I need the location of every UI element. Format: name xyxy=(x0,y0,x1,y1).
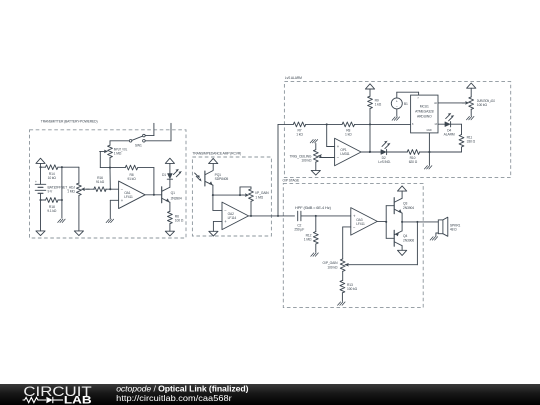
svg-text:2N3904: 2N3904 xyxy=(403,206,414,210)
transistor Q1 2N3904 xyxy=(162,187,182,203)
power VCC receiver xyxy=(209,158,218,170)
svg-text:HPF (f3dB = 6E-4 Hz): HPF (f3dB = 6E-4 Hz) xyxy=(295,206,331,210)
potentiometer I/P_GAIN 1 M xyxy=(242,189,269,201)
annotation box LvS ALARM xyxy=(284,76,510,178)
svg-text:620 Ω: 620 Ω xyxy=(409,160,418,164)
signal ground B1 xyxy=(392,117,400,120)
op-amp OA1 LF411 xyxy=(119,181,146,209)
svg-text:1 MΩ: 1 MΩ xyxy=(255,195,263,199)
resistor R9 1 k pullup xyxy=(368,96,382,108)
battery BAT1 9 V xyxy=(35,180,55,194)
resistor R11 330 xyxy=(459,135,476,147)
svg-text:1 MΩ: 1 MΩ xyxy=(304,238,312,242)
wire TRIG bottom xyxy=(315,162,317,170)
resistor R8 1 k hysteresis xyxy=(342,122,354,136)
wire node to OA2 inverting xyxy=(213,195,222,210)
annotation box O/P STAGE xyxy=(283,178,424,307)
ground TRIG_CEILING xyxy=(311,170,320,175)
MCU MCU1 ATMEGA328 ARDUINO xyxy=(411,95,438,133)
potentiometer INPUT_VOL 1 M xyxy=(100,145,128,157)
signal ground TRIG_CEILING top xyxy=(310,140,318,143)
wire SW1 lower throw stub xyxy=(145,123,171,141)
wire R14 left xyxy=(39,166,45,168)
svg-text:330 Ω: 330 Ω xyxy=(467,140,476,144)
svg-text:LvS ALARM: LvS ALARM xyxy=(285,76,302,80)
wire OA2 output xyxy=(249,215,280,217)
wire output feedback down xyxy=(416,222,418,265)
wire battery minus to R18 xyxy=(40,193,42,200)
svg-text:O/P STAGE: O/P STAGE xyxy=(283,178,301,182)
potentiometer O/P_GAIN 100 k xyxy=(323,259,349,271)
svg-text:−: − xyxy=(396,105,398,109)
wire DURATION_ADJ bottom xyxy=(470,109,472,115)
transistor Q4 2N3906 xyxy=(394,230,414,246)
wire Q4 base xyxy=(386,237,394,239)
svg-text:O/P_GAIN: O/P_GAIN xyxy=(323,261,339,265)
power VCC R9 xyxy=(365,84,374,96)
comparator OP1 LM311 xyxy=(335,138,362,166)
wire INPUT_VOL wiper return xyxy=(100,151,110,167)
svg-text:1 kΩ: 1 kΩ xyxy=(345,132,352,136)
signal ground mid-rail xyxy=(58,219,65,222)
svg-text:48 Ω: 48 Ω xyxy=(450,228,457,232)
switch SW1 xyxy=(129,134,145,147)
svg-text:MCU1: MCU1 xyxy=(420,105,429,109)
LED D2 LvS IND xyxy=(378,141,391,164)
wire R7 right to node A xyxy=(306,123,342,125)
power VCC D1 xyxy=(165,158,174,173)
svg-text:B1: B1 xyxy=(404,102,408,106)
svg-text:9.1 kΩ: 9.1 kΩ xyxy=(47,209,57,213)
op-amp OA3 LF411 xyxy=(351,208,378,236)
wire R18 right / mid-rail vertical xyxy=(58,167,63,218)
power VEE Q4 xyxy=(398,250,407,255)
wire battery minus down xyxy=(40,200,42,231)
signal ground MCU xyxy=(424,166,432,169)
signal ground DURATION_ADJ xyxy=(467,116,475,119)
wire R8 right to MCU pin 8 xyxy=(355,123,411,125)
svg-text:+: + xyxy=(35,180,37,184)
wire C2 to OA3 + input xyxy=(301,215,351,217)
svg-text:LAB: LAB xyxy=(64,395,92,405)
svg-text:10 kΩ: 10 kΩ xyxy=(48,176,57,180)
svg-text:Q4: Q4 xyxy=(403,234,407,238)
wire OP1 output to D2 xyxy=(361,151,381,153)
phototransistor PQ1 SDP8405 xyxy=(195,171,229,186)
signal ground R12 xyxy=(311,253,319,256)
wire R9 down to comparator output xyxy=(369,109,371,153)
resistor R14 10 k xyxy=(46,165,58,180)
wire B1 to MCU top pin xyxy=(397,92,419,98)
svg-text:250 µF: 250 µF xyxy=(294,228,304,232)
capacitor C2 250uF HPF xyxy=(294,206,330,232)
svg-text:Q1: Q1 xyxy=(171,191,175,195)
power VCC transmitter rail xyxy=(36,158,45,184)
wire O/P_GAIN wiper feedback xyxy=(346,264,417,266)
wire SW1 upper throw stub xyxy=(145,123,154,135)
wire OA1 output to Q1 base xyxy=(145,194,162,196)
wire I/P_GAIN bottom to output xyxy=(250,201,252,216)
LED D4 ALARM xyxy=(444,113,455,136)
svg-text:ARDUINO: ARDUINO xyxy=(417,115,432,119)
wire D2 to R10 xyxy=(386,151,407,153)
wire R6 to ground xyxy=(169,224,171,232)
svg-text:1 MΩ: 1 MΩ xyxy=(67,190,75,194)
wire TRIG top xyxy=(315,143,317,149)
svg-text:ATMEGA328: ATMEGA328 xyxy=(415,110,434,114)
wire O/P_GAIN bottom to R13 xyxy=(342,271,344,280)
svg-text:D1: D1 xyxy=(162,173,166,177)
potentiometer TRIG_CEILING 100 k xyxy=(290,150,322,163)
signal ground OA1 xyxy=(106,219,114,222)
wire R18 left xyxy=(39,199,45,201)
voltage source B1 xyxy=(391,98,408,109)
svg-text:91 kΩ: 91 kΩ xyxy=(96,180,105,184)
wire Q3 collector to VCC xyxy=(401,191,403,198)
svg-text:91 kΩ: 91 kΩ xyxy=(127,177,136,181)
annotation box TRANSMITTER xyxy=(30,120,187,238)
wire PQ1 emitter down xyxy=(212,185,214,196)
wire MCU gnd down xyxy=(428,133,430,165)
wire output rail to speaker xyxy=(402,221,438,223)
svg-text:LF411: LF411 xyxy=(124,195,133,199)
wire receiver output to C2 xyxy=(278,215,295,217)
potentiometer OFFSET_ADJ 1 M xyxy=(55,183,90,195)
svg-text:SW1: SW1 xyxy=(135,144,142,148)
LED D1 xyxy=(162,169,182,179)
wire R12 to ground xyxy=(315,244,317,252)
wire OFFSET_ADJ wiper to R16 xyxy=(87,188,95,190)
wire MCU A0 to DURATION_ADJ xyxy=(438,102,464,104)
svg-text:DURATION_ADJ: DURATION_ADJ xyxy=(477,99,495,103)
signal ground speaker xyxy=(430,237,438,240)
svg-text:LF114: LF114 xyxy=(228,216,237,220)
svg-text:LvS IND.: LvS IND. xyxy=(378,160,391,164)
transistor Q3 2N3904 xyxy=(394,198,414,214)
ground Q1 emitter xyxy=(165,231,174,236)
wire OA3 - to O/P_GAIN top xyxy=(343,227,351,259)
svg-text:Q3: Q3 xyxy=(403,201,407,205)
svg-text:ALARM: ALARM xyxy=(444,132,455,136)
svg-text:+: + xyxy=(396,99,398,103)
wire R10 right to R11 bottom xyxy=(419,151,461,153)
wire R11 bottom to rail xyxy=(461,147,463,152)
resistor R7 1 k xyxy=(293,122,305,136)
resistor R10 620 xyxy=(407,150,419,164)
wire Q3 base xyxy=(386,205,394,207)
wire R13 to ground xyxy=(341,293,343,301)
resistor R13 100 k xyxy=(340,280,358,292)
svg-text:1 kΩ: 1 kΩ xyxy=(296,132,303,136)
svg-text:I/P_GAIN: I/P_GAIN xyxy=(255,191,269,195)
svg-text:TRANSIMPEDANCE AMP (RCVR): TRANSIMPEDANCE AMP (RCVR) xyxy=(192,151,241,155)
svg-text:100 kΩ: 100 kΩ xyxy=(301,159,312,163)
annotation box TRANSIMPEDANCE AMP xyxy=(192,151,271,236)
wire MCU pin13 to D4 xyxy=(438,123,445,125)
svg-text:100 kΩ: 100 kΩ xyxy=(477,103,488,107)
wire base bus xyxy=(385,206,387,239)
svg-text:2N3906: 2N3906 xyxy=(403,239,414,243)
svg-text:http://circuitlab.com/caa568r: http://circuitlab.com/caa568r xyxy=(116,393,232,403)
svg-text:LM311: LM311 xyxy=(340,152,350,156)
wire Q3 emitter to rail xyxy=(401,213,403,222)
svg-text:1 MΩ: 1 MΩ xyxy=(114,152,122,156)
resistor R6 100 xyxy=(168,211,184,223)
wire speaker return xyxy=(436,233,438,236)
resistor R18 9.1 k xyxy=(46,198,58,213)
wire OA1 + input to ground xyxy=(110,200,118,218)
wire node A to + input xyxy=(327,124,335,146)
wire TRIG wiper to - input xyxy=(320,157,335,159)
wire R7 left xyxy=(278,123,293,125)
wire R14 right to OFFSET_ADJ top xyxy=(58,166,79,183)
wire R8 right down to output xyxy=(138,168,154,195)
wire R8 left xyxy=(110,167,125,169)
wire Q4 collector to VEE xyxy=(401,246,403,251)
svg-text:GND: GND xyxy=(427,129,432,132)
svg-text:TRANSMITTER (BATTERY-POWERED): TRANSMITTER (BATTERY-POWERED) xyxy=(41,120,98,124)
wire Q1 emitter to R6 xyxy=(169,202,171,211)
ground transmitter left xyxy=(36,231,45,236)
wire INPUT_VOL top to SW1 xyxy=(110,141,129,145)
wire OFFSET_ADJ bottom xyxy=(78,195,80,231)
power VCC Q3 xyxy=(398,186,407,191)
wire Q4 emitter to rail xyxy=(401,221,403,231)
power VCC DURATION_ADJ xyxy=(467,83,476,97)
resistor R16 91 k xyxy=(94,176,106,192)
potentiometer DURATION_ADJ 100 k xyxy=(462,97,495,109)
CircuitLab footer bar xyxy=(0,383,540,405)
wire Q1 collector to D1 xyxy=(169,179,171,187)
wire D4 to R11 top xyxy=(450,124,461,134)
wire I/P_GAIN top loop xyxy=(240,187,251,195)
svg-text:2N3904: 2N3904 xyxy=(171,197,182,201)
svg-text:SDP8405: SDP8405 xyxy=(215,177,229,181)
ground OA2 xyxy=(209,231,218,236)
wire OA2 + to ground xyxy=(213,221,222,231)
wire R16 to inverting input xyxy=(106,188,119,190)
wire B1 minus down xyxy=(396,109,398,116)
svg-text:LF411: LF411 xyxy=(356,222,365,226)
wire INPUT_VOL bottom node xyxy=(109,158,111,190)
resistor R12 1 M xyxy=(304,232,318,244)
svg-text:100 kΩ: 100 kΩ xyxy=(347,287,358,291)
wire node down to R12 xyxy=(315,216,317,232)
ground transmitter right xyxy=(74,231,83,236)
signal ground R13 xyxy=(338,302,346,305)
resistor R8 91 k feedback xyxy=(125,165,137,181)
wire feedback node row xyxy=(213,194,244,196)
wire receiver output up to LvS alarm xyxy=(277,124,279,215)
svg-text:100 Ω: 100 Ω xyxy=(175,218,184,222)
svg-text:100 kΩ: 100 kΩ xyxy=(327,266,338,270)
wire OA3 output to bases xyxy=(377,221,387,223)
op-amp OA2 LF114 xyxy=(222,202,249,230)
svg-text:1 kΩ: 1 kΩ xyxy=(375,103,382,107)
speaker SPKR1 48 xyxy=(438,217,460,236)
